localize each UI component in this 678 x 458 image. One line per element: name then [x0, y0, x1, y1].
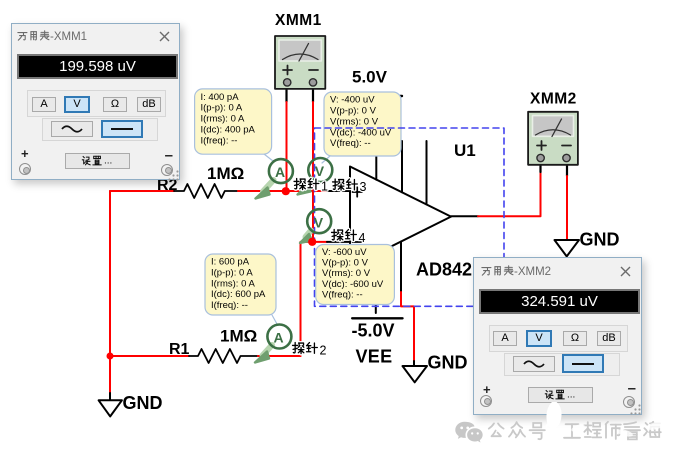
probe label 探针4 [332, 230, 366, 245]
svg-text:-XMM2: -XMM2 [514, 266, 551, 278]
svg-text:-XMM1: -XMM1 [50, 31, 87, 43]
wire left vertical bus [109, 191, 111, 356]
svg-text:XMM1: XMM1 [275, 12, 322, 29]
svg-text:I(dc): 600 pA: I(dc): 600 pA [211, 289, 266, 300]
svg-text:V: -400 uV: V: -400 uV [330, 95, 375, 106]
svg-text:U1: U1 [454, 141, 476, 160]
svg-text:I(freq): --: I(freq): -- [201, 135, 238, 146]
svg-text:1MΩ: 1MΩ [207, 164, 244, 183]
junction node C (R1/GND) [107, 353, 114, 360]
svg-text:I(rms): 0 A: I(rms): 0 A [211, 278, 255, 289]
junction node B (XMM1-/feedback/opamp-) [308, 238, 316, 246]
svg-text:...: ... [104, 156, 112, 167]
svg-text:V(freq): --: V(freq): -- [322, 289, 363, 300]
opamp output stub [451, 215, 478, 217]
probe value box V-400 [322, 92, 401, 163]
svg-text:V: -600 uV: V: -600 uV [322, 247, 367, 258]
svg-text:I(p-p): 0 A: I(p-p): 0 A [211, 268, 253, 279]
svg-text:...: ... [567, 390, 575, 401]
svg-text:V: V [315, 163, 325, 179]
wire feedback vertical [300, 242, 302, 356]
hierarchical block dashed boundary [315, 128, 505, 306]
wire R2 to opamp +in [238, 190, 327, 192]
opamp VEE pin to -5.0V [375, 254, 377, 313]
resistor R1 [189, 349, 258, 363]
op-amp U1 triangle [350, 167, 451, 268]
wire GND1 drop [109, 356, 111, 393]
multimeter icon XMM1 [275, 12, 325, 89]
svg-text:I: 600 pA: I: 600 pA [211, 257, 250, 268]
junction node A (R2/XMM1+/opamp+) [282, 187, 290, 195]
svg-text:5.0V: 5.0V [352, 68, 388, 87]
svg-text:GND: GND [428, 353, 468, 373]
wire output to XMM2 [478, 172, 541, 216]
svg-text:1: 1 [321, 180, 328, 194]
wire XMM1 plus lead [285, 88, 287, 102]
opamp VCC pin [375, 97, 377, 180]
wire R1 row [110, 355, 189, 357]
instrument window XMM1 [11, 23, 180, 180]
white leaf overlay [546, 400, 561, 428]
wire XMM1 minus lead [312, 88, 314, 102]
probe label 探针2 [293, 343, 327, 358]
current probe 2 arrow [255, 325, 291, 363]
wire R2-left horizontal [110, 190, 174, 192]
ground GND1 [99, 400, 122, 416]
opamp pin5 stub [400, 242, 402, 292]
svg-text:V(p-p): 0 V: V(p-p): 0 V [322, 258, 369, 269]
svg-text:XMM2: XMM2 [530, 91, 577, 108]
svg-text:R1: R1 [169, 341, 190, 358]
svg-text:GND: GND [123, 393, 163, 413]
wire R1 to feedback corner [258, 355, 301, 357]
opamp top stub pin 2 [426, 141, 428, 204]
opamp +in pin stub [327, 190, 350, 192]
svg-text:A: A [274, 330, 284, 346]
svg-text:I(freq): --: I(freq): -- [211, 300, 248, 311]
probe label 探针3 [333, 179, 367, 194]
XMM2 plus lead stub [539, 161, 541, 172]
XMM2 minus lead [566, 161, 568, 176]
ground GND3 [403, 366, 428, 382]
opamp plus input marker [353, 187, 363, 196]
svg-text:V(rms): 0 V: V(rms): 0 V [322, 268, 371, 279]
probe value box V-600 [316, 245, 395, 305]
svg-text:AD842: AD842 [416, 260, 472, 280]
watermark text 公众号 工程师看海 [489, 422, 661, 440]
svg-text:V(dc): -600 uV: V(dc): -600 uV [322, 279, 384, 290]
svg-text:I(dc): 400 pA: I(dc): 400 pA [201, 125, 256, 136]
svg-text:4: 4 [359, 231, 366, 245]
probe label 探针1 [294, 179, 328, 194]
svg-text:I(p-p): 0 A: I(p-p): 0 A [201, 103, 243, 114]
opamp minus input marker [353, 241, 363, 243]
power bar -5.0V [352, 317, 402, 319]
svg-text:V(freq): --: V(freq): -- [330, 138, 371, 149]
wire pin5 to GND3 [401, 292, 414, 361]
power bar 5.0V (hidden behind value box) [352, 95, 402, 97]
current probe 1 arrow [256, 159, 293, 198]
svg-text:-5.0V: -5.0V [352, 321, 395, 341]
probe value box I-400 [195, 89, 273, 161]
multimeter icon XMM2 [528, 91, 578, 165]
svg-text:3: 3 [360, 180, 367, 194]
svg-text:1MΩ: 1MΩ [220, 327, 257, 346]
voltage probe 4 arrow [300, 209, 331, 243]
svg-text:V: V [314, 214, 324, 230]
opamp top stub pin 1 [401, 141, 403, 192]
resistor R2 [174, 184, 238, 198]
voltage probe 3 arrow [298, 158, 333, 195]
svg-text:V(dc): -400 uV: V(dc): -400 uV [330, 127, 392, 138]
wire row2 to opamp -in [301, 241, 328, 243]
opamp -in pin stub [327, 241, 350, 243]
svg-text:I: 400 pA: I: 400 pA [201, 92, 240, 103]
svg-text:GND: GND [580, 230, 620, 250]
svg-text:V(p-p): 0 V: V(p-p): 0 V [330, 106, 377, 117]
svg-text:A: A [275, 164, 285, 180]
svg-text:V(rms): 0 V: V(rms): 0 V [330, 116, 379, 127]
svg-text:I(rms): 0 A: I(rms): 0 A [201, 114, 245, 125]
instrument window XMM2 [473, 257, 642, 415]
probe value box I-600 [205, 254, 277, 324]
svg-text:2: 2 [320, 344, 327, 358]
svg-text:VEE: VEE [356, 347, 393, 367]
watermark wechat logo and text [450, 402, 678, 452]
ground GND2 [555, 240, 580, 256]
